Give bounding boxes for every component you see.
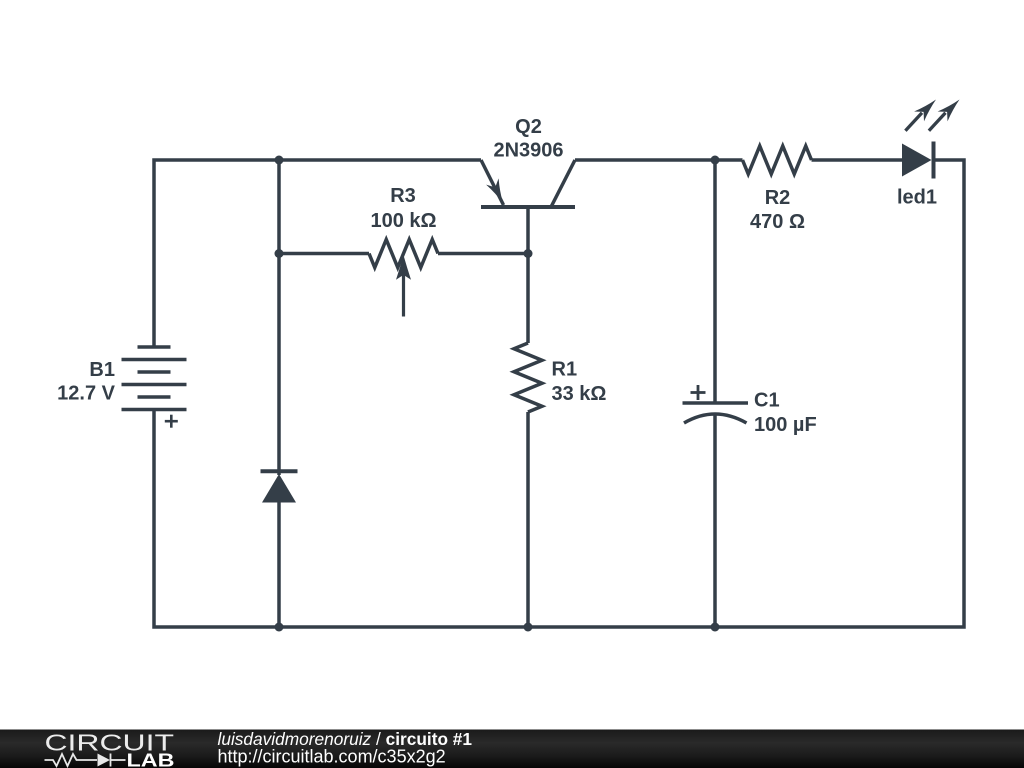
svg-text:100 kΩ: 100 kΩ <box>370 210 436 232</box>
svg-text:http://circuitlab.com/c35x2g2: http://circuitlab.com/c35x2g2 <box>218 747 446 767</box>
svg-text:R2: R2 <box>765 187 791 209</box>
logo wire symbol <box>45 754 126 767</box>
resistor R2 <box>743 146 812 174</box>
wire mid rail top <box>277 160 281 475</box>
LED led1 <box>902 142 934 179</box>
logo diode triangle <box>98 754 111 767</box>
node dot R3 left <box>275 249 284 258</box>
wire mid rail bottom <box>277 503 281 628</box>
svg-text:C1: C1 <box>754 389 780 411</box>
svg-text:LAB: LAB <box>127 749 175 768</box>
wire R2 to LED <box>812 158 903 162</box>
node dot bottom C1 <box>711 623 720 632</box>
LED arrow 1 <box>905 100 936 131</box>
transistor Q2 <box>481 160 575 207</box>
node dot top-left <box>275 156 284 165</box>
node dot bottom R1 <box>524 623 533 632</box>
node dot top-C1 <box>711 156 720 165</box>
node dot R3 right <box>524 249 533 258</box>
svg-text:led1: led1 <box>897 187 937 209</box>
wire C1 bottom lead <box>713 414 717 627</box>
wire R1 to bottom <box>526 412 530 627</box>
resistor R1 <box>514 343 542 412</box>
LED arrow 2 <box>929 100 960 131</box>
footer bar <box>0 730 1024 768</box>
wiper arrow R3 <box>396 255 411 316</box>
svg-text:B1: B1 <box>89 359 115 381</box>
wire base lead Q2 <box>526 207 530 254</box>
wire node to R1 <box>526 254 530 344</box>
diode <box>261 471 298 502</box>
svg-text:R3: R3 <box>390 185 416 207</box>
svg-text:2N3906: 2N3906 <box>493 139 563 161</box>
emitter arrow Q2 <box>486 178 503 203</box>
capacitor C1 <box>683 385 749 423</box>
wire top rail left <box>154 160 481 347</box>
svg-text:100 µF: 100 µF <box>754 414 817 436</box>
svg-text:33 kΩ: 33 kΩ <box>552 383 607 405</box>
node dot bottom diode <box>275 623 284 632</box>
svg-text:R1: R1 <box>552 359 578 381</box>
wire top rail right <box>575 158 743 162</box>
wire R3 row <box>279 252 369 256</box>
svg-text:Q2: Q2 <box>515 116 542 138</box>
wire LED right rail bottom rail <box>154 160 964 627</box>
svg-text:470 Ω: 470 Ω <box>750 211 805 233</box>
svg-text:12.7 V: 12.7 V <box>57 382 115 404</box>
wire R3 to node <box>438 252 528 256</box>
battery B1 <box>122 347 187 428</box>
resistor R3 (potentiometer) <box>369 240 438 268</box>
wire C1 top lead <box>713 160 717 403</box>
